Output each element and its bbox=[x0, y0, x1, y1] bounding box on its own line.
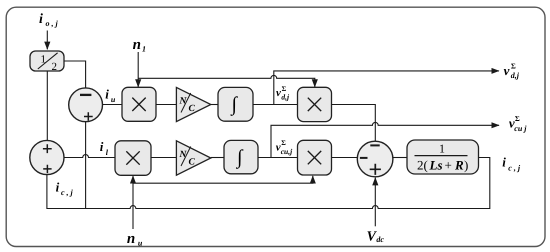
svg-text:n: n bbox=[127, 231, 135, 247]
wire vd riser to output arrow bbox=[274, 71, 499, 105]
svg-text:i: i bbox=[502, 155, 506, 170]
svg-text:C: C bbox=[189, 104, 196, 114]
svg-text:l: l bbox=[106, 148, 109, 157]
multiplier M3 bbox=[115, 141, 151, 176]
svg-text:u: u bbox=[111, 95, 116, 104]
wire V_dc arrow up into S3 bottom bbox=[374, 178, 376, 227]
wire vcu riser to output arrow (hops over S3 drop) bbox=[271, 122, 499, 157]
svg-text:1: 1 bbox=[142, 45, 146, 54]
wire S3 to plant block bbox=[393, 157, 407, 159]
wire n_u arrow up into M3 bottom bbox=[132, 176, 134, 229]
svg-text:cu,j: cu,j bbox=[281, 147, 293, 156]
wire I2 to M4 with node bbox=[258, 157, 298, 159]
svg-text:v: v bbox=[504, 63, 510, 78]
wire G2 to integrator I2 bbox=[211, 157, 224, 159]
wire M1 to gain G1 bbox=[156, 104, 176, 106]
svg-text:v: v bbox=[276, 87, 281, 99]
svg-text:c , j: c , j bbox=[61, 188, 74, 197]
multiplier M2 bbox=[298, 87, 332, 121]
wire n_1 branch to M2 top (hops over vd riser) bbox=[138, 75, 315, 87]
integrator I2 bbox=[224, 140, 258, 173]
svg-text:): ) bbox=[464, 158, 468, 173]
summer S1 bbox=[69, 88, 103, 122]
svg-text:2: 2 bbox=[52, 61, 58, 73]
gain G2 triangle N/C bbox=[176, 141, 210, 175]
svg-text:Ls: Ls bbox=[429, 158, 443, 173]
S3 minus left bbox=[360, 157, 368, 159]
svg-text:i: i bbox=[39, 12, 43, 27]
svg-text:i: i bbox=[100, 139, 104, 154]
gain G1 triangle N/C bbox=[176, 87, 210, 121]
wire plant output feedback down-left (hops over Vdc and n_u) to S2 bottom bbox=[47, 158, 490, 209]
wire n_u branch to M4 bottom bbox=[133, 176, 313, 183]
wire M4 to summer S3 bbox=[332, 157, 358, 159]
svg-text:1: 1 bbox=[439, 142, 445, 156]
wire G1 to integrator I1 bbox=[211, 104, 218, 106]
svg-text:2(: 2( bbox=[417, 158, 428, 173]
wire M2 right then down to summer S3 top bbox=[332, 105, 376, 142]
plant block 1/(2(Ls+R)) bbox=[407, 140, 479, 174]
svg-text:c , j: c , j bbox=[508, 164, 521, 173]
S2 plus top bbox=[43, 144, 52, 153]
divider block 1/2 bbox=[30, 51, 64, 71]
S3 plus bottom bbox=[370, 164, 381, 175]
summer S3 bbox=[357, 141, 393, 177]
svg-text:C: C bbox=[189, 158, 196, 168]
svg-text:Σ: Σ bbox=[515, 114, 520, 123]
wire M3 to gain G2 bbox=[151, 157, 176, 159]
multiplier M1 bbox=[122, 87, 156, 121]
summer S2 bbox=[30, 140, 64, 174]
svg-text:1: 1 bbox=[41, 54, 47, 66]
wire S2 to multiplier M3 (hops over S1 drop) bbox=[64, 155, 115, 158]
wire I1 to M2 with node bbox=[253, 104, 298, 106]
svg-text:d,j: d,j bbox=[281, 93, 290, 102]
svg-text:n: n bbox=[133, 37, 141, 53]
wire divider right to summer S1 top bbox=[64, 61, 86, 88]
wire i_o,j arrow into divider bbox=[46, 31, 48, 50]
svg-text:+: + bbox=[445, 158, 452, 173]
multiplier M4 bbox=[298, 140, 332, 175]
svg-text:Σ: Σ bbox=[282, 85, 287, 93]
integrator I1 bbox=[218, 87, 253, 121]
svg-text:Σ: Σ bbox=[281, 139, 286, 147]
svg-text:u: u bbox=[138, 239, 143, 248]
svg-text:Σ: Σ bbox=[511, 61, 516, 70]
wire S1 to multiplier M1 bbox=[103, 104, 123, 106]
wire n_1 arrow into M1 top bbox=[137, 52, 139, 87]
svg-text:i: i bbox=[105, 86, 109, 101]
S3 minus top bbox=[370, 144, 379, 146]
wire divider bottom to summer S2 top bbox=[46, 71, 48, 141]
S1 minus sign bbox=[80, 94, 91, 96]
wire S1 bottom down to feedback line bbox=[85, 122, 87, 209]
svg-text:o , j: o , j bbox=[46, 19, 59, 28]
S2 plus bottom bbox=[43, 165, 51, 173]
S1 plus sign bbox=[84, 112, 93, 121]
svg-text:R: R bbox=[454, 158, 464, 173]
svg-text:dc: dc bbox=[376, 235, 384, 244]
svg-text:i: i bbox=[56, 179, 60, 194]
svg-text:cu j: cu j bbox=[514, 124, 527, 133]
svg-text:d,j: d,j bbox=[511, 71, 520, 80]
